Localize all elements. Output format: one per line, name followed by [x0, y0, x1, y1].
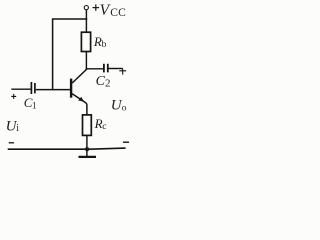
wire left vertical: [52, 18, 54, 89]
minus sign right: [123, 141, 129, 143]
capacitor C1: [31, 82, 35, 94]
output plus mark: [119, 69, 126, 75]
wire bottom rail: [8, 148, 126, 149]
ground bar: [79, 156, 97, 158]
svg-text:1: 1: [32, 102, 37, 112]
capacitor C2: [104, 64, 108, 73]
wire Rc bottom lead: [86, 135, 88, 149]
svg-text:o: o: [122, 103, 127, 113]
wire top rail: [53, 18, 87, 20]
svg-text:V: V: [100, 2, 111, 19]
svg-text:CC: CC: [110, 7, 126, 19]
transistor emitter line: [72, 94, 87, 115]
ground stub: [86, 149, 88, 156]
VCC terminal circle: [84, 6, 88, 10]
input plus mark: [11, 94, 16, 99]
svg-text:R: R: [94, 116, 103, 131]
svg-text:c: c: [102, 122, 106, 132]
node base junction: [52, 89, 54, 91]
transistor collector line: [72, 70, 86, 84]
wire collector to C2: [86, 68, 103, 70]
transistor emitter arrow: [78, 97, 84, 102]
wire Rb bottom lead: [85, 52, 87, 70]
svg-text:R: R: [93, 34, 102, 49]
resistor Rb: [81, 32, 90, 51]
node collector junction: [85, 68, 87, 70]
wire C2 to output: [108, 68, 123, 70]
label +VCC plus: [93, 4, 100, 10]
node top junction: [85, 18, 87, 20]
svg-text:b: b: [102, 40, 107, 50]
wire VCC lead: [85, 10, 87, 19]
svg-text:2: 2: [105, 78, 111, 90]
wire input left: [11, 88, 30, 90]
resistor Rc: [83, 115, 92, 135]
wire Rb top lead: [85, 19, 87, 32]
transistor Q1 base bar: [70, 79, 72, 98]
svg-text:i: i: [16, 123, 19, 134]
minus sign left: [9, 142, 14, 144]
wire base: [36, 89, 70, 91]
node bottom junction dot: [85, 147, 89, 151]
